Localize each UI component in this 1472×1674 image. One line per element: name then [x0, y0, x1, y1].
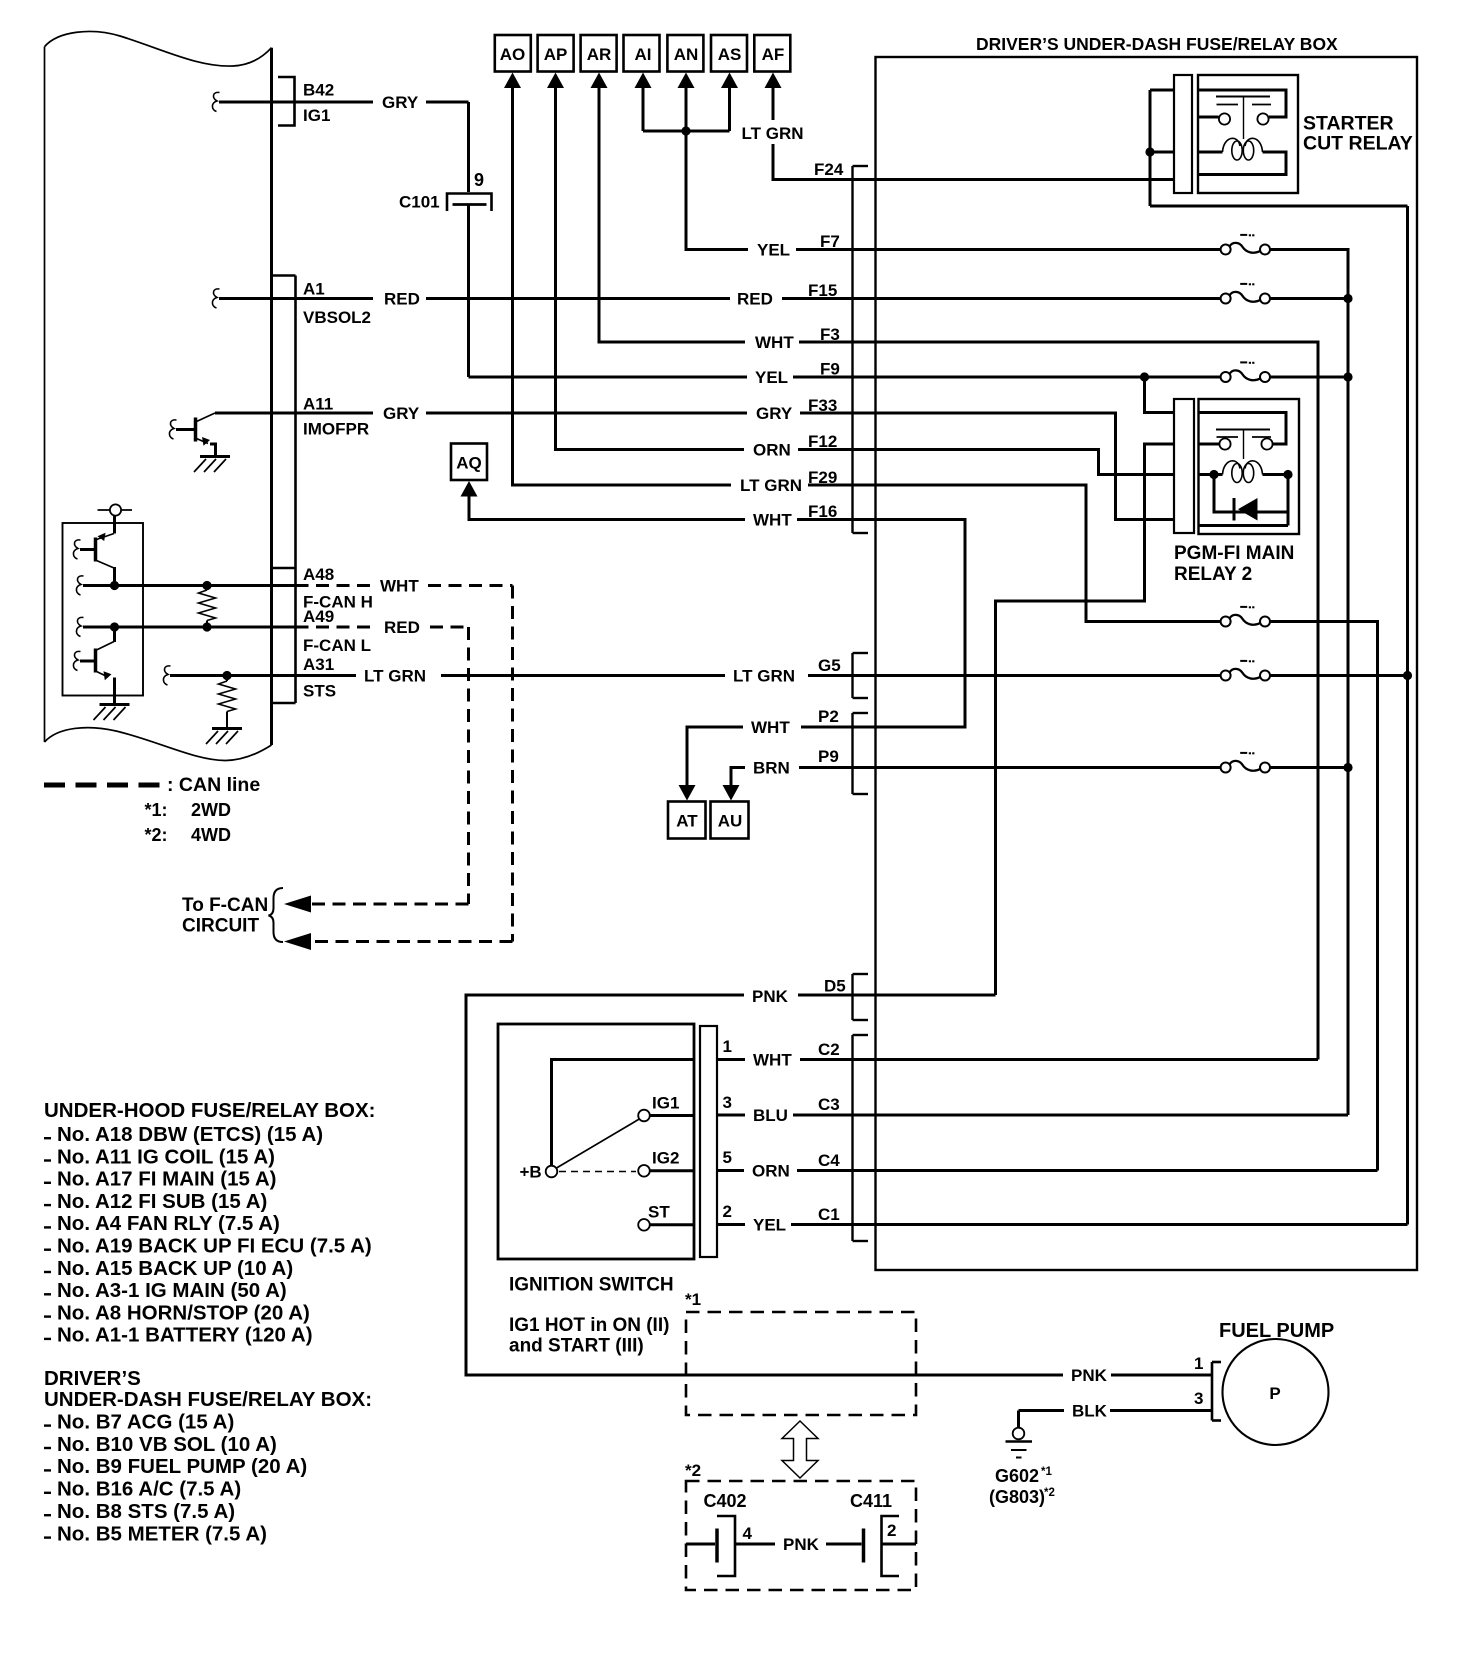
- svg-text:WHT: WHT: [751, 718, 790, 737]
- wire fuse output to C4 column: [1269, 622, 1378, 1171]
- svg-text:A11: A11: [303, 395, 333, 414]
- junction AN bus: [681, 126, 690, 135]
- connector AF: [754, 35, 790, 88]
- svg-text:2: 2: [723, 1202, 732, 1221]
- wire pin1 WHT to C2: [717, 1058, 853, 1061]
- connector C402: [686, 1491, 775, 1576]
- junction relay 2 coil right: [1283, 470, 1292, 479]
- wire B42 GRY: ECM to C101/F9: [212, 92, 468, 111]
- ground (Q1 emitter): [194, 457, 230, 473]
- svg-text:AO: AO: [500, 45, 526, 64]
- wire C3 row: [853, 1114, 1349, 1117]
- svg-text:F24: F24: [814, 160, 844, 179]
- pull resistor R2 (STS): [219, 676, 236, 728]
- wire AO to F29 row: [513, 86, 876, 485]
- svg-text:UNDER-DASH FUSE/RELAY BOX:: UNDER-DASH FUSE/RELAY BOX:: [44, 1388, 372, 1411]
- wire AR to F3 row: [599, 86, 876, 342]
- svg-text:PNK: PNK: [752, 987, 789, 1006]
- wire IG1 stub: [650, 1114, 694, 1117]
- svg-text:RED: RED: [384, 290, 420, 309]
- svg-text:*2: *2: [1044, 1487, 1055, 1499]
- svg-text:AN: AN: [674, 45, 699, 64]
- wire G5 fuse output to C1 column: [1269, 674, 1408, 677]
- wire A48 WHT dashed CAN line: [296, 586, 513, 942]
- svg-text:No. B5 METER (7.5 A): No. B5 METER (7.5 A): [57, 1522, 267, 1545]
- fuel pump motor P: [1223, 1339, 1329, 1445]
- wire AP to F12 row: [556, 86, 876, 450]
- junction F9/relay 2 feed: [1140, 372, 1149, 381]
- svg-text:DRIVER’S: DRIVER’S: [44, 1367, 141, 1390]
- transistor Q2 (F-CAN H driver): [73, 533, 114, 586]
- svg-text:9: 9: [474, 170, 484, 190]
- wire F7 fuse output to column: [1269, 250, 1348, 1116]
- svg-text:No. B8 STS (7.5 A): No. B8 STS (7.5 A): [57, 1500, 235, 1523]
- svg-text:No. B9 FUEL PUMP (20 A): No. B9 FUEL PUMP (20 A): [57, 1455, 307, 1478]
- wire starter relay feed vertical: [1150, 90, 1174, 206]
- label To F-CAN CIRCUIT: [182, 895, 268, 937]
- svg-text:F9: F9: [820, 360, 840, 379]
- fuse (F9): [1230, 370, 1261, 380]
- PGM-FI main relay 2 box: [1199, 399, 1300, 534]
- svg-text:No. A4 FAN RLY (7.5 A): No. A4 FAN RLY (7.5 A): [57, 1212, 280, 1235]
- label WHT (C2): [745, 1051, 800, 1069]
- svg-text:BLK: BLK: [1072, 1402, 1108, 1421]
- ground (STS resistor): [206, 729, 242, 745]
- starter cut relay contact circuit: [1198, 90, 1286, 139]
- junction resistor/F-CAN L: [202, 622, 211, 631]
- svg-text:LT GRN: LT GRN: [742, 124, 804, 143]
- wire pin2 YEL to C1: [717, 1223, 853, 1226]
- transistor Q3 (F-CAN L driver): [73, 627, 114, 703]
- terminating resistor R1 (F-CAN): [199, 586, 216, 628]
- svg-text:4WD: 4WD: [191, 825, 231, 845]
- wire AN to F7 row: [686, 86, 876, 250]
- legend *1 2WD: [145, 800, 232, 820]
- svg-text:VBSOL2: VBSOL2: [303, 308, 371, 327]
- svg-text:To F-CAN: To F-CAN: [182, 895, 268, 916]
- svg-text:C2: C2: [818, 1040, 840, 1059]
- svg-text:P2: P2: [818, 707, 839, 726]
- wire BLK fuel pump ground: [1019, 1411, 1213, 1429]
- wire F29 row to fuse row: [876, 485, 1222, 622]
- arrow to F-CAN circuit (WHT): [284, 933, 311, 950]
- svg-text:F-CAN L: F-CAN L: [303, 636, 371, 655]
- wire F7 row inside box: [876, 248, 1222, 251]
- svg-text:5: 5: [723, 1148, 732, 1167]
- wire AF to F24 row: [773, 86, 853, 180]
- wire F-CAN L inside ECM: [76, 617, 295, 636]
- svg-text:WHT: WHT: [755, 333, 794, 352]
- wire AS drop to bus: [728, 86, 731, 131]
- fuse (F7): [1230, 243, 1261, 253]
- svg-text:WHT: WHT: [753, 511, 792, 530]
- wire G5 row inside box: [853, 674, 1222, 677]
- svg-text:No. A15 BACK UP (10 A): No. A15 BACK UP (10 A): [57, 1257, 293, 1280]
- junction G5/C1 column: [1403, 671, 1412, 680]
- svg-text:*2: *2: [685, 1461, 701, 1480]
- svg-text:PNK: PNK: [783, 1535, 820, 1554]
- wire F9 YEL from C101: [469, 376, 876, 379]
- starter cut relay coil: [1198, 138, 1286, 174]
- capacitor C101 (noise condenser) with pin 9: [447, 102, 492, 377]
- wire D5 PNK / ignition feed: [466, 995, 1212, 1375]
- svg-text:BRN: BRN: [753, 759, 790, 778]
- svg-text:and START (III): and START (III): [509, 1336, 644, 1357]
- svg-text:F16: F16: [808, 502, 837, 521]
- svg-text:GRY: GRY: [756, 404, 793, 423]
- wire F16 row to P2: [853, 520, 966, 728]
- PGM-FI main relay 2 connector bracket: [1174, 399, 1194, 533]
- transistor Q1 IMOFPR driver: [169, 413, 215, 455]
- svg-text:*2:: *2:: [145, 825, 168, 845]
- svg-text:AQ: AQ: [456, 454, 482, 473]
- svg-text:F33: F33: [808, 396, 837, 415]
- connector AT: [668, 802, 706, 839]
- svg-text:A49: A49: [303, 607, 334, 626]
- svg-text:No. A18 DBW (ETCS) (15 A): No. A18 DBW (ETCS) (15 A): [57, 1123, 323, 1146]
- junction F-CAN H at driver: [110, 581, 119, 590]
- ignition switch box: [498, 1024, 694, 1259]
- svg-text:YEL: YEL: [755, 368, 788, 387]
- svg-text:AS: AS: [718, 45, 742, 64]
- wire P9 row inside box: [853, 766, 1222, 769]
- svg-text:GRY: GRY: [383, 404, 420, 423]
- wire bus AI-AN-AS: [643, 130, 730, 133]
- svg-text:STS: STS: [303, 682, 336, 701]
- option box *1 (2WD): [685, 1290, 916, 1415]
- svg-text:*1: *1: [1041, 1466, 1052, 1478]
- fuel pump connector bracket: [1212, 1362, 1221, 1421]
- wire F24 row inside box to relay: [853, 178, 1175, 181]
- svg-text:LT GRN: LT GRN: [740, 476, 802, 495]
- pin bracket B42: [278, 77, 295, 126]
- switch wiper +B to IG1: [557, 1119, 640, 1168]
- svg-text:PNK: PNK: [1071, 1366, 1108, 1385]
- wire C2 row: [853, 1058, 1319, 1061]
- ignition switch pin connector: [700, 1026, 717, 1257]
- svg-text:AF: AF: [762, 45, 785, 64]
- junction F9/column: [1343, 372, 1352, 381]
- svg-text:No. B10 VB SOL (10 A): No. B10 VB SOL (10 A): [57, 1433, 277, 1456]
- pin bracket A1-A11 / A48-A31 (shared vertical): [272, 276, 296, 704]
- junction STS/resistor: [222, 671, 231, 680]
- wire D5 row inside box: [853, 994, 996, 997]
- fuse (F29 feed): [1230, 615, 1261, 625]
- PGM-FI relay 2 contact circuit: [1199, 413, 1287, 460]
- svg-text:CUT RELAY: CUT RELAY: [1303, 133, 1413, 155]
- svg-text:F29: F29: [808, 468, 837, 487]
- junction F-CAN L at driver: [110, 622, 119, 631]
- connector bracket P2/P9: [853, 713, 869, 794]
- label STARTER CUT RELAY: [1303, 113, 1413, 155]
- svg-text:LT GRN: LT GRN: [364, 667, 426, 686]
- brace To F-CAN CIRCUIT: [269, 888, 284, 942]
- svg-text:YEL: YEL: [757, 241, 790, 260]
- svg-text:*1:: *1:: [145, 800, 168, 820]
- svg-text:2: 2: [887, 1521, 896, 1540]
- wire AQ to F16 row: [469, 495, 876, 520]
- svg-text:C4: C4: [818, 1151, 840, 1170]
- svg-text:F3: F3: [820, 325, 840, 344]
- svg-text:LT GRN: LT GRN: [733, 667, 795, 686]
- CAN driver IC box: [63, 523, 144, 696]
- connector AO: [495, 35, 531, 88]
- svg-text:C1: C1: [818, 1205, 840, 1224]
- svg-text:A48: A48: [303, 565, 334, 584]
- svg-text:CIRCUIT: CIRCUIT: [182, 916, 259, 937]
- svg-text:IG1 HOT in ON (II): IG1 HOT in ON (II): [509, 1315, 669, 1336]
- connector bracket G5: [853, 653, 869, 698]
- svg-text:B42: B42: [303, 81, 334, 100]
- wire F9 tap to PGM-FI relay 2: [1145, 377, 1175, 413]
- wire A31 LT GRN to G5: [163, 666, 875, 685]
- svg-text:ORN: ORN: [753, 441, 791, 460]
- ground G602/G803: [1006, 1428, 1033, 1458]
- svg-text:1: 1: [723, 1037, 732, 1056]
- svg-text:No. A1-1 BATTERY (120 A): No. A1-1 BATTERY (120 A): [57, 1324, 313, 1347]
- wire F15 row inside box: [876, 297, 1222, 300]
- svg-text:4: 4: [743, 1524, 753, 1543]
- wire A1 RED to fuse box F15: [212, 289, 875, 308]
- wire F15 fuse output: [1269, 297, 1348, 300]
- svg-text:No. B7 ACG (15 A): No. B7 ACG (15 A): [57, 1410, 234, 1433]
- wire F-CAN H inside ECM: [76, 576, 295, 595]
- connector bracket F rows: [853, 166, 869, 533]
- svg-text:+B: +B: [520, 1163, 542, 1182]
- svg-text:WHT: WHT: [380, 577, 419, 596]
- connector AI: [624, 35, 660, 88]
- svg-text:No. A19 BACK UP FI ECU (7.5 A): No. A19 BACK UP FI ECU (7.5 A): [57, 1235, 372, 1258]
- svg-text:A31: A31: [303, 655, 334, 674]
- svg-text:PGM-FI MAIN: PGM-FI MAIN: [1174, 543, 1294, 564]
- svg-text:AT: AT: [676, 812, 698, 831]
- driver's under-dash fuse/relay box outline: [876, 57, 1418, 1270]
- starter cut relay box: [1198, 75, 1298, 193]
- svg-text:AP: AP: [544, 45, 568, 64]
- ground (Q3 emitter): [94, 705, 130, 721]
- wire pin5 ORN to C4: [717, 1169, 853, 1172]
- svg-text:No. A12 FI SUB (15 A): No. A12 FI SUB (15 A): [57, 1190, 267, 1213]
- svg-text:C402: C402: [704, 1491, 747, 1511]
- svg-text:C101: C101: [399, 193, 440, 212]
- connector AP: [538, 35, 574, 88]
- svg-text:ST: ST: [648, 1203, 670, 1222]
- svg-text:RELAY 2: RELAY 2: [1174, 564, 1252, 585]
- wire F33 row to relay 2: [876, 413, 1175, 520]
- supply terminal (CAN driver): [98, 504, 133, 533]
- wire C4 row: [853, 1169, 1378, 1172]
- svg-text:ORN: ORN: [752, 1162, 790, 1181]
- PGM-FI relay 2 coil and diode: [1199, 461, 1289, 526]
- svg-text:C411: C411: [850, 1491, 892, 1511]
- terminal +B: [546, 1166, 558, 1178]
- wire A11 GRY to fuse box F33: [215, 412, 876, 415]
- svg-text:D5: D5: [824, 977, 846, 996]
- svg-text:UNDER-HOOD FUSE/RELAY BOX:: UNDER-HOOD FUSE/RELAY BOX:: [44, 1099, 375, 1122]
- pin A49 F-CAN L label: [303, 607, 371, 655]
- list UNDER-HOOD FUSE/RELAY BOX: [44, 1099, 375, 1347]
- wire starter relay output to C1 column: [1150, 205, 1408, 208]
- svg-text:No. A11 IG COIL (15 A): No. A11 IG COIL (15 A): [57, 1145, 275, 1168]
- connector C411: [826, 1491, 916, 1576]
- connector AU: [711, 802, 749, 839]
- svg-text:No. A8 HORN/STOP (20 A): No. A8 HORN/STOP (20 A): [57, 1301, 310, 1324]
- legend CAN line dashed sample: [44, 783, 164, 788]
- svg-text:3: 3: [1194, 1389, 1203, 1408]
- connector AS: [711, 35, 747, 88]
- svg-text:2WD: 2WD: [191, 800, 231, 820]
- arrow to F-CAN circuit (RED): [284, 896, 311, 913]
- junction resistor/F-CAN H: [202, 581, 211, 590]
- svg-text:IGNITION SWITCH: IGNITION SWITCH: [509, 1275, 674, 1296]
- wire P9 BRN to AU: [723, 768, 876, 801]
- wire P2 WHT to AT: [679, 727, 876, 801]
- double arrow between *1 and *2: [782, 1421, 818, 1478]
- pin A1 VBSOL2 label: [303, 280, 371, 328]
- wire A49 RED dashed CAN line: [296, 627, 469, 904]
- wire F12 row to relay 2 coil: [876, 450, 1175, 475]
- svg-text:C3: C3: [818, 1095, 840, 1114]
- legend *2 4WD: [145, 825, 232, 845]
- svg-text:: CAN line: : CAN line: [167, 774, 260, 796]
- connector bracket C1-C4: [853, 1035, 869, 1241]
- svg-text:WHT: WHT: [753, 1051, 792, 1070]
- junction F15/column: [1343, 294, 1352, 303]
- label PGM-FI MAIN RELAY 2: [1174, 543, 1294, 585]
- label IG1 HOT in ON (II) and START (III): [509, 1315, 669, 1357]
- junction starter relay coil feed: [1145, 147, 1154, 156]
- starter cut relay connector bracket: [1174, 75, 1192, 193]
- ECM/PCM connector torn-edge outline: [45, 31, 272, 760]
- terminal IG2: [638, 1165, 650, 1177]
- wire pin3 BLU to C3: [717, 1114, 853, 1117]
- fuse (G5): [1230, 669, 1261, 679]
- wire C1 column: [1406, 206, 1409, 1225]
- fuse (P9): [1230, 761, 1261, 771]
- svg-text:P: P: [1269, 1384, 1280, 1403]
- svg-text:AR: AR: [587, 45, 612, 64]
- svg-text:F7: F7: [820, 232, 840, 251]
- option box *2 (4WD): [685, 1461, 916, 1590]
- wire ST stub: [650, 1223, 694, 1226]
- svg-text:G5: G5: [818, 656, 841, 675]
- svg-text:G602: G602: [995, 1466, 1039, 1486]
- pin B42 IG1 label: [303, 81, 334, 126]
- svg-text:P9: P9: [818, 747, 839, 766]
- wire F9 fuse output: [1269, 376, 1348, 379]
- label G602 / G803: [989, 1466, 1055, 1507]
- svg-text:No. B16 A/C (7.5 A): No. B16 A/C (7.5 A): [57, 1478, 241, 1501]
- svg-text:No. A3-1 IG MAIN (50 A): No. A3-1 IG MAIN (50 A): [57, 1279, 287, 1302]
- svg-text:No. A17 FI MAIN (15 A): No. A17 FI MAIN (15 A): [57, 1168, 276, 1191]
- svg-text:AU: AU: [718, 812, 743, 831]
- svg-text:F15: F15: [808, 281, 837, 300]
- fuse (F15): [1230, 292, 1261, 302]
- svg-text:1: 1: [1194, 1354, 1203, 1373]
- svg-text:IMOFPR: IMOFPR: [303, 420, 369, 439]
- svg-text:GRY: GRY: [382, 93, 419, 112]
- svg-text:DRIVER’S UNDER-DASH FUSE/RELAY: DRIVER’S UNDER-DASH FUSE/RELAY BOX: [976, 34, 1338, 54]
- svg-text:A1: A1: [303, 280, 325, 299]
- connector AN: [667, 35, 703, 88]
- svg-text:BLU: BLU: [753, 1106, 788, 1125]
- connector AR: [581, 35, 617, 88]
- svg-text:*1: *1: [685, 1290, 701, 1309]
- svg-text:YEL: YEL: [753, 1216, 786, 1235]
- svg-text:IG1: IG1: [652, 1094, 679, 1113]
- list DRIVER'S UNDER-DASH FUSE/RELAY BOX: [44, 1367, 372, 1545]
- wire C1 row: [853, 1223, 1408, 1226]
- wire relay 2 output to D5 bus: [996, 444, 1175, 995]
- wire F3 row inside box to C2 column: [876, 342, 1319, 1060]
- wire AI drop to bus: [642, 86, 645, 131]
- svg-text:IG1: IG1: [303, 106, 330, 125]
- svg-text:STARTER: STARTER: [1303, 113, 1394, 135]
- pin A31 STS label: [303, 655, 336, 701]
- wire P9 fuse output: [1269, 766, 1348, 769]
- switch wiper dashed to IG2: [559, 1171, 636, 1173]
- connector AQ: [451, 444, 487, 497]
- svg-text:AI: AI: [635, 45, 652, 64]
- pin A11 IMOFPR label: [303, 395, 369, 439]
- svg-text:(G803): (G803): [989, 1487, 1045, 1507]
- svg-text:IG2: IG2: [652, 1149, 679, 1168]
- svg-text:F12: F12: [808, 432, 837, 451]
- terminal IG1: [638, 1110, 650, 1122]
- svg-text:RED: RED: [737, 290, 773, 309]
- ignition switch +B feed: [552, 1060, 695, 1167]
- junction P9/column: [1343, 763, 1352, 772]
- svg-text:3: 3: [723, 1093, 732, 1112]
- connector bracket D5: [853, 974, 869, 1020]
- wire IG2 stub: [650, 1169, 694, 1172]
- svg-text:RED: RED: [384, 618, 420, 637]
- pin A48 F-CAN H label: [303, 565, 373, 612]
- terminal ST: [638, 1219, 650, 1231]
- junction relay 2 coil left: [1209, 470, 1218, 479]
- wire F9 row inside box: [876, 376, 1222, 379]
